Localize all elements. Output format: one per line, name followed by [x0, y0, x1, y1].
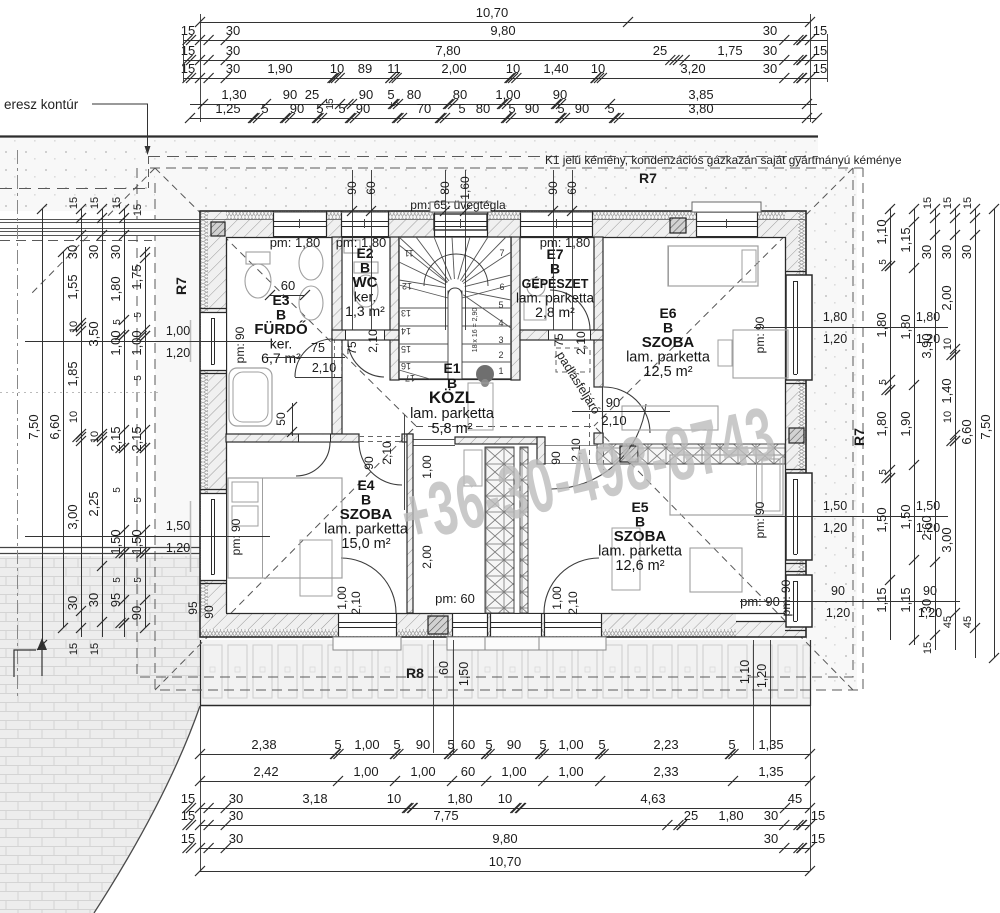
svg-text:16: 16	[401, 361, 411, 371]
right callout 90/1.20	[740, 601, 960, 603]
E5 small table	[612, 528, 640, 590]
svg-text:15: 15	[962, 197, 974, 209]
door arc gepeszet	[550, 290, 590, 330]
E6 desk right	[733, 330, 788, 378]
svg-text:89: 89	[358, 61, 372, 76]
svg-text:2,10: 2,10	[380, 441, 394, 465]
svg-text:90: 90	[575, 101, 589, 116]
wall corridor top horizontal	[455, 437, 543, 444]
svg-text:15: 15	[811, 831, 825, 846]
svg-text:1,20: 1,20	[755, 664, 769, 688]
left dim col 6,60	[63, 252, 65, 628]
svg-text:pm: 90: pm: 90	[233, 326, 247, 363]
svg-text:90: 90	[359, 87, 373, 102]
svg-text:3,00: 3,00	[939, 527, 954, 552]
door E4 opening dashed lines	[359, 436, 402, 438]
svg-text:1,15: 1,15	[898, 227, 913, 252]
svg-text:30: 30	[226, 61, 240, 76]
svg-text:80: 80	[453, 87, 467, 102]
svg-text:5: 5	[133, 577, 144, 583]
svg-text:10: 10	[330, 61, 344, 76]
svg-text:25: 25	[305, 87, 319, 102]
svg-text:2,15: 2,15	[108, 426, 123, 451]
top dim row 2 (15 30 9,80 30 15)	[183, 40, 827, 42]
svg-text:2,10: 2,10	[566, 591, 580, 615]
svg-text:7,80: 7,80	[435, 43, 460, 58]
svg-text:1,80: 1,80	[447, 791, 472, 806]
svg-text:70: 70	[417, 101, 431, 116]
wall E5 left vertical	[520, 447, 528, 613]
svg-text:15: 15	[942, 197, 954, 209]
svg-text:1,00: 1,00	[129, 330, 144, 355]
svg-text:1,80: 1,80	[874, 411, 889, 436]
roof hip NW	[155, 168, 416, 426]
svg-text:15: 15	[89, 643, 101, 655]
svg-text:17: 17	[405, 373, 415, 383]
bottom wall door E4 terrace (1.00)	[338, 614, 396, 636]
top wall window 1 (bath, 90)	[273, 212, 326, 237]
svg-text:5: 5	[498, 300, 503, 310]
svg-text:1,50: 1,50	[898, 504, 913, 529]
svg-text:pm: 1,80: pm: 1,80	[540, 235, 591, 250]
svg-text:15: 15	[181, 23, 195, 38]
svg-text:2,8 m²: 2,8 m²	[535, 304, 575, 320]
svg-text:2,10: 2,10	[574, 331, 588, 355]
left wall window bath (1.00)	[201, 312, 226, 370]
terrace strip below building with pavers	[200, 640, 810, 705]
left dim col 4	[102, 209, 104, 637]
terrace bottom edge	[200, 705, 810, 707]
svg-text:30: 30	[65, 596, 80, 610]
svg-text:2,42: 2,42	[253, 764, 278, 779]
right wall window E6 (1.80)	[786, 275, 806, 380]
svg-text:2,10: 2,10	[312, 361, 336, 375]
door arc WC	[348, 340, 384, 377]
svg-text:4: 4	[498, 318, 503, 328]
svg-text:11: 11	[404, 248, 413, 258]
bottom dim row 3	[200, 808, 810, 810]
svg-text:6,60: 6,60	[959, 419, 974, 444]
bath door dims horizontal	[267, 357, 345, 359]
right exterior wall hatched	[785, 211, 798, 637]
door arc E5 large	[551, 404, 646, 489]
corridor opening lintel	[412, 439, 455, 441]
svg-text:60: 60	[565, 181, 579, 195]
svg-text:1,50: 1,50	[823, 499, 847, 513]
svg-text:30: 30	[764, 808, 778, 823]
bottom leaders R8 60/1.50	[433, 640, 435, 753]
gepeszet equipment	[524, 296, 546, 320]
svg-text:1,00: 1,00	[108, 330, 123, 355]
left callout 1.00/1.20	[25, 341, 273, 343]
svg-text:pm: 1,80: pm: 1,80	[336, 235, 387, 250]
svg-text:60: 60	[364, 181, 378, 195]
svg-text:5: 5	[447, 737, 454, 752]
eresz kontur dashed line upper	[148, 156, 818, 158]
bath toilet	[245, 264, 271, 298]
svg-text:1,20: 1,20	[826, 606, 850, 620]
svg-text:15: 15	[181, 791, 195, 806]
svg-text:50: 50	[274, 412, 288, 426]
left dim col 7,50	[42, 209, 44, 645]
gepeszet boiler circle	[527, 278, 545, 296]
bottom wall right thin segment	[736, 621, 806, 637]
svg-text:30: 30	[919, 245, 934, 259]
roof hip NE	[594, 168, 853, 426]
svg-text:GÉPÉSZET: GÉPÉSZET	[522, 276, 589, 291]
top wall window 4 (gepeszet, 1.40 zone)	[520, 212, 592, 237]
svg-text:45: 45	[788, 791, 802, 806]
svg-text:1,75: 1,75	[129, 264, 144, 289]
svg-text:10: 10	[942, 411, 954, 423]
svg-text:15: 15	[89, 197, 101, 209]
annex inner dashed line	[0, 240, 152, 242]
svg-text:30: 30	[939, 245, 954, 259]
paving arc boundary	[94, 706, 200, 913]
svg-text:90: 90	[525, 101, 539, 116]
door arc bath lower into E4	[296, 442, 330, 476]
bottom dim row 4	[200, 825, 810, 827]
svg-text:30: 30	[229, 831, 243, 846]
chimney dark block bottom wall R8	[428, 616, 448, 634]
E4 cabinet	[300, 540, 332, 596]
svg-text:1,90: 1,90	[267, 61, 292, 76]
bath sink 1	[299, 246, 323, 280]
svg-text:5: 5	[112, 319, 123, 325]
svg-text:1,00: 1,00	[558, 764, 583, 779]
roof plan contour dashed rectangle outer	[137, 168, 853, 677]
svg-text:15: 15	[111, 197, 123, 209]
KOZL cabinet	[468, 383, 493, 430]
svg-text:3,20: 3,20	[680, 61, 705, 76]
bottom dim row 2	[200, 781, 810, 783]
svg-text:2,25: 2,25	[86, 491, 101, 516]
bottom leaders right 1.10/1.20	[753, 640, 755, 750]
svg-text:1,50: 1,50	[129, 529, 144, 554]
svg-text:75: 75	[311, 341, 325, 355]
svg-text:30: 30	[229, 791, 243, 806]
light zone left of building inside contour	[155, 168, 204, 640]
door arc E6	[604, 387, 650, 433]
wall bath right lower vertical	[332, 340, 342, 434]
svg-text:60: 60	[437, 661, 451, 675]
terrace right edge	[810, 640, 812, 706]
wc small sink	[344, 240, 360, 253]
svg-text:5: 5	[133, 312, 144, 318]
annex eresz dashed line	[0, 188, 150, 190]
wall bath/WC vertical	[332, 237, 342, 340]
svg-text:2: 2	[498, 350, 503, 360]
door arc E4	[359, 442, 402, 485]
svg-text:1,75: 1,75	[717, 43, 742, 58]
svg-text:90: 90	[129, 606, 144, 620]
svg-text:10,70: 10,70	[476, 5, 509, 20]
svg-text:1,50: 1,50	[874, 507, 889, 532]
svg-text:6,60: 6,60	[47, 414, 62, 439]
svg-text:10,70: 10,70	[489, 854, 522, 869]
svg-text:3,85: 3,85	[688, 87, 713, 102]
svg-text:80: 80	[438, 181, 452, 195]
svg-text:1,55: 1,55	[65, 274, 80, 299]
svg-text:14: 14	[401, 326, 411, 336]
svg-text:60: 60	[461, 737, 475, 752]
svg-text:5: 5	[598, 737, 605, 752]
right callout 1.80/1.20	[754, 327, 948, 329]
E6 bed top-right	[668, 246, 758, 286]
svg-text:1,15: 1,15	[874, 587, 889, 612]
bottom wall door R8 corridor (60)	[452, 614, 487, 636]
svg-text:7: 7	[499, 248, 504, 258]
E6 dresser bottom	[622, 406, 718, 430]
svg-text:90: 90	[923, 584, 937, 598]
svg-text:15: 15	[922, 197, 934, 209]
bath sink 2	[299, 286, 323, 320]
axis dash-dot line left	[17, 150, 19, 700]
svg-text:1,80: 1,80	[874, 312, 889, 337]
svg-text:KÖZL: KÖZL	[429, 388, 475, 407]
top wall window 3 uvegtegla 65	[434, 212, 487, 237]
svg-text:5: 5	[316, 101, 323, 116]
svg-text:5: 5	[458, 101, 465, 116]
svg-text:5: 5	[387, 87, 394, 102]
top dim row 1 (10,70)	[200, 22, 810, 24]
svg-text:90: 90	[345, 181, 359, 195]
svg-text:5: 5	[112, 577, 123, 583]
chimney dark block right wall R7	[789, 428, 804, 443]
left dim col 3	[81, 209, 83, 637]
svg-text:1,30: 1,30	[221, 87, 246, 102]
svg-text:1,50: 1,50	[166, 519, 190, 533]
svg-text:2,60: 2,60	[919, 515, 934, 540]
svg-text:pm: 90: pm: 90	[779, 579, 793, 616]
roof hip SE	[594, 426, 853, 690]
svg-text:60: 60	[281, 278, 295, 293]
svg-text:1,50: 1,50	[457, 662, 471, 686]
svg-text:1,80: 1,80	[916, 310, 940, 324]
svg-text:R7: R7	[173, 277, 189, 295]
E4 bed	[228, 478, 342, 578]
svg-text:90: 90	[546, 181, 560, 195]
stair handrail post dark circle	[476, 365, 494, 383]
roof hip SW	[155, 426, 416, 690]
svg-text:10: 10	[506, 61, 520, 76]
bottom exterior wall insulation strip	[200, 629, 736, 637]
right dim col 4	[955, 209, 957, 650]
svg-text:5: 5	[878, 379, 889, 385]
svg-text:13: 13	[401, 308, 411, 318]
svg-text:80: 80	[407, 87, 421, 102]
svg-text:1,80: 1,80	[108, 276, 123, 301]
brick paving area bottom-left	[0, 556, 200, 913]
svg-text:10: 10	[89, 431, 101, 443]
svg-text:30: 30	[65, 245, 80, 259]
bottom dim row 5	[200, 848, 810, 850]
svg-text:9,80: 9,80	[492, 831, 517, 846]
svg-text:90: 90	[416, 737, 430, 752]
svg-text:30: 30	[108, 245, 123, 259]
left exterior wall hatched	[208, 211, 226, 637]
svg-text:15: 15	[132, 204, 144, 216]
svg-text:90: 90	[362, 456, 376, 470]
bottom wall door E5 terrace (1.00)	[544, 614, 601, 636]
E5 dresser	[690, 548, 742, 592]
top wall window 2 (wc, 89)	[341, 212, 388, 237]
wall bath/E4 horizontal thin	[226, 434, 359, 442]
svg-text:15: 15	[813, 23, 827, 38]
right callout 1.50/1.20	[754, 516, 948, 518]
left wall window E4 (1.50)	[201, 493, 226, 580]
svg-text:1,20: 1,20	[823, 521, 847, 535]
top wall window 5 (szoba E6)	[696, 212, 757, 237]
svg-text:3,80: 3,80	[688, 101, 713, 116]
svg-text:1,40: 1,40	[939, 378, 954, 403]
svg-text:5: 5	[133, 497, 144, 503]
svg-text:2,10: 2,10	[366, 329, 380, 353]
svg-text:5: 5	[485, 737, 492, 752]
wc toilet	[354, 275, 378, 307]
svg-text:E1: E1	[443, 360, 460, 376]
top dim row 3 (7,80 25 1,75)	[183, 60, 827, 62]
svg-text:B: B	[550, 261, 560, 277]
svg-text:90: 90	[290, 101, 304, 116]
svg-text:15: 15	[811, 808, 825, 823]
wardrobe/duct band corridor right	[485, 447, 514, 613]
svg-text:6: 6	[499, 282, 504, 292]
svg-text:30: 30	[763, 61, 777, 76]
svg-text:1,35: 1,35	[758, 737, 783, 752]
chimney dark block in E6/E5 wall	[620, 446, 638, 462]
svg-text:30: 30	[229, 808, 243, 823]
svg-text:30: 30	[763, 43, 777, 58]
svg-text:5: 5	[878, 259, 889, 265]
svg-text:1,00: 1,00	[353, 764, 378, 779]
svg-text:1,10: 1,10	[874, 219, 889, 244]
right dim col 1	[890, 209, 892, 640]
svg-text:30: 30	[226, 43, 240, 58]
svg-text:pm: 1,80: pm: 1,80	[270, 235, 321, 250]
svg-text:15: 15	[68, 643, 80, 655]
wall gepeszet bottom horizontal	[520, 330, 603, 340]
svg-text:15: 15	[181, 808, 195, 823]
svg-text:1,85: 1,85	[65, 361, 80, 386]
right dim col 6 7,50	[994, 209, 996, 658]
svg-text:30: 30	[764, 831, 778, 846]
svg-text:12,5 m²: 12,5 m²	[643, 364, 692, 380]
svg-text:5: 5	[334, 737, 341, 752]
entry arrow bottom-left	[14, 648, 42, 677]
bath tub	[229, 368, 272, 426]
svg-text:1,25: 1,25	[215, 101, 240, 116]
door arc E5 terrace	[544, 558, 599, 613]
right dim col 3	[935, 209, 937, 650]
svg-text:1,00: 1,00	[410, 764, 435, 779]
wall stair/E7 vertical	[511, 237, 520, 380]
svg-text:R8: R8	[406, 665, 424, 681]
svg-text:2,10: 2,10	[349, 591, 363, 615]
bottom wall window (90)	[490, 614, 541, 636]
svg-text:3,18: 3,18	[302, 791, 327, 806]
svg-text:5: 5	[539, 737, 546, 752]
top dim row 5 (1,30 90 25 ...)	[190, 104, 817, 106]
right wall window E5 small (90)	[786, 575, 806, 627]
svg-text:1,50: 1,50	[916, 499, 940, 513]
svg-text:7,50: 7,50	[978, 414, 993, 439]
svg-text:3: 3	[498, 335, 503, 345]
svg-text:1,20: 1,20	[823, 332, 847, 346]
svg-text:1,60: 1,60	[458, 176, 472, 200]
svg-text:2,38: 2,38	[251, 737, 276, 752]
svg-text:7,50: 7,50	[26, 414, 41, 439]
svg-text:3,50: 3,50	[86, 321, 101, 346]
terrace left edge	[200, 640, 202, 706]
svg-text:lam. parketta: lam. parketta	[410, 406, 495, 422]
svg-text:5: 5	[390, 101, 401, 107]
svg-text:5: 5	[878, 469, 889, 475]
svg-text:75: 75	[345, 341, 359, 355]
svg-text:1,00: 1,00	[335, 586, 349, 610]
bottom dim row 1	[200, 754, 810, 756]
svg-text:1,3 m²: 1,3 m²	[345, 303, 385, 319]
svg-text:90: 90	[553, 87, 567, 102]
svg-text:5,8 m²: 5,8 m²	[431, 421, 472, 437]
right dim col 2	[914, 209, 916, 645]
annex eresz vertical step dashed	[148, 156, 150, 188]
svg-text:30: 30	[919, 599, 934, 613]
svg-text:9,80: 9,80	[490, 23, 515, 38]
svg-text:5: 5	[112, 487, 123, 493]
svg-text:1,80: 1,80	[718, 808, 743, 823]
light zone right of building inside contour	[806, 168, 857, 690]
right exterior wall insulation strip	[798, 211, 806, 637]
svg-text:30: 30	[959, 245, 974, 259]
door arc bath	[295, 339, 333, 377]
svg-text:95: 95	[186, 601, 200, 615]
top window dim leaders 90/60	[352, 170, 354, 330]
stair bottom boundary line	[399, 379, 511, 381]
faint axis line horizontal	[0, 392, 160, 394]
svg-text:1,90: 1,90	[898, 411, 913, 436]
svg-text:5: 5	[508, 101, 515, 116]
E5 bed	[670, 455, 783, 515]
svg-text:1,20: 1,20	[166, 541, 190, 555]
door gap bath lower	[298, 435, 330, 442]
svg-text:15: 15	[813, 43, 827, 58]
svg-text:30: 30	[86, 245, 101, 259]
roof plan contour dashed rectangle inner	[150, 168, 863, 690]
svg-text:30: 30	[763, 23, 777, 38]
svg-text:45: 45	[942, 616, 954, 628]
svg-text:eresz kontúr: eresz kontúr	[4, 97, 79, 112]
svg-text:1,00: 1,00	[166, 324, 190, 338]
svg-text:90: 90	[606, 395, 620, 410]
svg-text:1,35: 1,35	[758, 764, 783, 779]
svg-text:1,00: 1,00	[501, 764, 526, 779]
wall E7/E6 vertical upper	[594, 237, 603, 387]
svg-text:15: 15	[922, 642, 934, 654]
svg-text:1,00: 1,00	[558, 737, 583, 752]
svg-text:pm: 60: pm: 60	[435, 591, 475, 606]
svg-text:10: 10	[68, 411, 80, 423]
svg-text:pm: 90: pm: 90	[753, 316, 767, 353]
svg-text:pm: 90: pm: 90	[753, 501, 767, 538]
top dim row 6 (1,25 5 90 ...)	[190, 118, 817, 120]
svg-text:60: 60	[461, 764, 475, 779]
svg-text:5: 5	[607, 101, 614, 116]
svg-text:R7: R7	[639, 170, 657, 186]
left dim col 6	[145, 247, 147, 628]
top exterior wall insulation row	[200, 211, 806, 219]
svg-text:1,00: 1,00	[550, 586, 564, 610]
